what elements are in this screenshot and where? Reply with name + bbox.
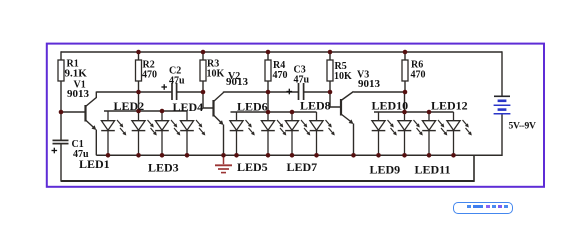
- LED LED12: [453, 112, 455, 121]
- LED LED2: [138, 111, 140, 121]
- wire V3 base drop: [330, 92, 341, 107]
- svg-text:10K: 10K: [207, 69, 225, 80]
- svg-text:LED9: LED9: [370, 163, 401, 177]
- svg-text:470: 470: [142, 70, 157, 81]
- capacitor C2: [171, 83, 173, 100]
- resistor R5: [329, 52, 331, 60]
- resistor R3: [202, 52, 204, 60]
- svg-text:9013: 9013: [226, 76, 249, 88]
- svg-text:5V--9V: 5V--9V: [509, 121, 536, 132]
- resistor R4: [267, 52, 269, 60]
- LED LED9: [378, 112, 380, 121]
- svg-text:LED6: LED6: [237, 100, 268, 114]
- wire left rail upper: [60, 51, 62, 60]
- svg-text:LED7: LED7: [287, 160, 318, 174]
- wire drop to LED group 3: [404, 92, 406, 112]
- wire battery column upper: [501, 51, 503, 95]
- capacitor C1: [53, 139, 69, 141]
- wire V1 base: [61, 111, 86, 113]
- wire C2 to R3 node: [177, 91, 203, 93]
- svg-text:9013: 9013: [67, 88, 90, 100]
- LED LED11: [428, 112, 430, 121]
- svg-text:LED3: LED3: [148, 161, 179, 175]
- LED LED8: [316, 112, 318, 121]
- resistor R2: [138, 52, 140, 60]
- svg-text:LED10: LED10: [372, 99, 409, 113]
- wire bottom rail: [61, 180, 474, 182]
- transistor V1: [84, 105, 86, 122]
- transistor V2: [212, 100, 214, 117]
- wire V2 base drop: [203, 92, 214, 108]
- ground: [223, 155, 225, 164]
- resistor R6: [404, 52, 406, 60]
- node LED bus junctions: [136, 109, 141, 114]
- svg-text:LED12: LED12: [431, 99, 468, 113]
- wire C3 to R5 node: [304, 91, 330, 93]
- node ground bus junctions: [106, 153, 111, 158]
- wire top supply rail: [61, 51, 502, 53]
- svg-text:LED1: LED1: [79, 157, 110, 171]
- capacitor C3: [298, 83, 300, 100]
- wire riser to ground bus: [473, 155, 475, 182]
- svg-text:LED2: LED2: [114, 99, 145, 113]
- wire left rail mid: [60, 81, 62, 140]
- wire LED group3 top bus: [374, 111, 454, 113]
- svg-text:LED8: LED8: [300, 99, 331, 113]
- wire LED group1 top bus: [104, 110, 187, 112]
- wire V2 collector bus: [224, 91, 299, 93]
- LED LED5: [236, 112, 238, 121]
- wire V1 collector bus: [96, 91, 172, 93]
- node supply junctions: [136, 50, 141, 55]
- svg-text:9.1K: 9.1K: [65, 68, 88, 80]
- transistor V3: [340, 99, 342, 116]
- LED LED7: [291, 112, 293, 121]
- node base junction V1: [59, 110, 64, 115]
- LED LED10: [404, 112, 406, 121]
- LED LED6: [267, 112, 269, 121]
- node collector bus junctions: [136, 90, 141, 95]
- wire battery column lower: [501, 115, 503, 157]
- svg-text:470: 470: [411, 70, 426, 81]
- LED LED4: [186, 111, 188, 121]
- svg-text:10K: 10K: [334, 71, 352, 82]
- LED LED3: [161, 111, 163, 121]
- wire V3 collector bus: [354, 91, 406, 93]
- battery B1: [494, 95, 510, 97]
- wire LED group2 top bus: [231, 111, 317, 113]
- resistor R1: [58, 60, 64, 81]
- wire drop to LED group 1: [138, 92, 140, 111]
- svg-text:470: 470: [273, 70, 288, 81]
- svg-text:9013: 9013: [358, 78, 381, 90]
- wire drop to LED group 2: [267, 92, 269, 112]
- svg-text:47u: 47u: [294, 75, 310, 86]
- svg-text:LED5: LED5: [237, 160, 268, 174]
- LED LED1: [107, 111, 109, 121]
- svg-text:LED4: LED4: [173, 100, 204, 114]
- wire left rail lower: [60, 144, 62, 182]
- wire ground bus: [96, 154, 502, 156]
- svg-text:47u: 47u: [169, 76, 185, 87]
- svg-text:LED11: LED11: [415, 163, 451, 177]
